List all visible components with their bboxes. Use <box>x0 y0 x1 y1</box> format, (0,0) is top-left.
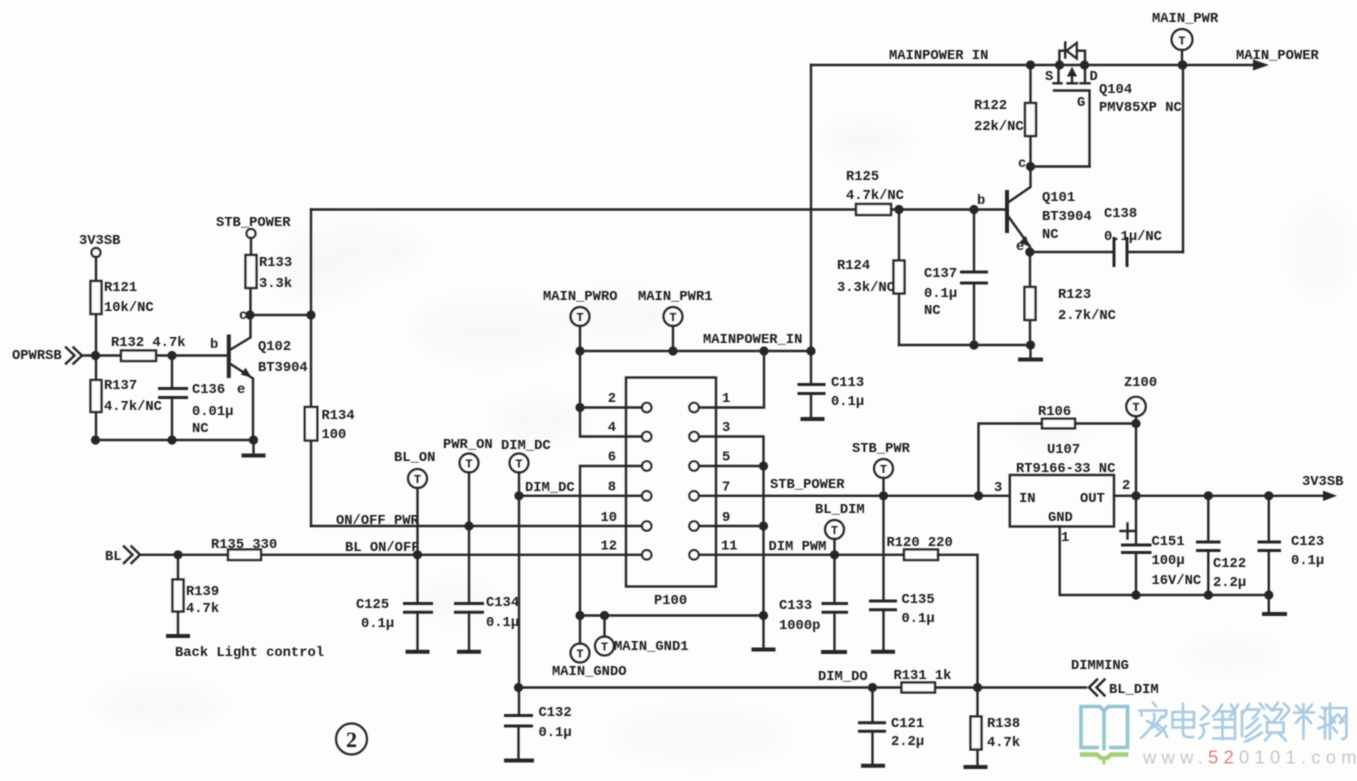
svg-text:e: e <box>1016 240 1024 255</box>
svg-text:2.7k/NC: 2.7k/NC <box>1058 308 1116 324</box>
svg-text:BL: BL <box>105 550 122 565</box>
svg-text:BL_ON: BL_ON <box>394 451 435 466</box>
svg-text:T: T <box>831 524 838 538</box>
svg-text:2.2μ: 2.2μ <box>891 735 924 750</box>
svg-text:G: G <box>1077 96 1085 111</box>
svg-text:3: 3 <box>722 421 730 436</box>
svg-text:2: 2 <box>608 392 616 407</box>
svg-text:P100: P100 <box>654 594 687 609</box>
svg-text:MAIN_PWRO: MAIN_PWRO <box>543 290 618 305</box>
svg-text:T: T <box>576 311 583 325</box>
svg-text:BL_DIM: BL_DIM <box>1109 683 1159 698</box>
svg-text:C136: C136 <box>192 383 225 398</box>
svg-text:R138: R138 <box>987 717 1020 732</box>
svg-text:S: S <box>1045 70 1053 85</box>
svg-text:R120 220: R120 220 <box>887 536 953 551</box>
svg-text:MAIN_GNDO: MAIN_GNDO <box>552 665 627 680</box>
svg-text:MAIN_GND1: MAIN_GND1 <box>614 640 689 655</box>
svg-text:OUT: OUT <box>1080 492 1105 507</box>
svg-text:DIM_DO: DIM_DO <box>818 670 868 685</box>
svg-text:R132 4.7k: R132 4.7k <box>111 335 186 351</box>
svg-text:DIM_DC: DIM_DC <box>501 439 551 454</box>
svg-text:GND: GND <box>1048 511 1073 526</box>
svg-text:12: 12 <box>600 540 617 555</box>
svg-text:3V3SB: 3V3SB <box>1302 475 1343 490</box>
svg-text:C133: C133 <box>779 599 812 614</box>
svg-text:C135: C135 <box>902 593 935 608</box>
svg-text:3.3k/NC: 3.3k/NC <box>837 280 895 296</box>
svg-text:R139: R139 <box>186 585 219 600</box>
svg-text:b: b <box>977 193 985 209</box>
svg-text:BL ON/OFF: BL ON/OFF <box>345 540 420 556</box>
svg-text:T: T <box>669 311 676 325</box>
svg-text:0.1μ: 0.1μ <box>1291 554 1324 569</box>
svg-text:R131 1k: R131 1k <box>894 668 952 684</box>
svg-text:C122: C122 <box>1213 557 1246 572</box>
svg-text:0.1μ: 0.1μ <box>486 616 519 631</box>
svg-text:4: 4 <box>608 421 616 436</box>
svg-text:www.520101.com: www.520101.com <box>1142 747 1357 768</box>
svg-text:BT3904: BT3904 <box>1042 210 1092 225</box>
svg-text:1000p: 1000p <box>779 619 820 634</box>
svg-text:1: 1 <box>722 392 730 407</box>
svg-text:DIM PWM: DIM PWM <box>769 540 827 555</box>
svg-text:R133: R133 <box>259 256 292 271</box>
svg-text:16V/NC: 16V/NC <box>1152 573 1202 589</box>
svg-text:C123: C123 <box>1291 535 1324 550</box>
svg-text:0.1μ/NC: 0.1μ/NC <box>1104 229 1162 245</box>
svg-text:MAINPOWER IN: MAINPOWER IN <box>889 49 988 64</box>
svg-text:T: T <box>1132 401 1139 415</box>
svg-text:T: T <box>414 473 421 487</box>
svg-text:0.1μ: 0.1μ <box>924 287 957 302</box>
svg-text:ON/OFF PWR: ON/OFF PWR <box>336 513 420 529</box>
svg-text:BT3904: BT3904 <box>258 361 308 376</box>
svg-text:T: T <box>576 648 583 662</box>
svg-text:MAIN_POWER: MAIN_POWER <box>1236 49 1320 64</box>
svg-text:4.7k/NC: 4.7k/NC <box>846 188 904 204</box>
svg-text:PWR_ON: PWR_ON <box>443 438 493 453</box>
svg-text:10k/NC: 10k/NC <box>104 300 154 316</box>
svg-text:T: T <box>515 458 522 472</box>
svg-text:NC: NC <box>1042 228 1059 243</box>
svg-text:RT9166-33 NC: RT9166-33 NC <box>1016 462 1115 477</box>
svg-text:0.01μ: 0.01μ <box>192 405 233 420</box>
svg-text:0.1μ: 0.1μ <box>831 395 864 410</box>
svg-text:4.7k: 4.7k <box>987 735 1020 751</box>
svg-text:STB_PWR: STB_PWR <box>852 442 911 457</box>
svg-text:MAIN_PWR: MAIN_PWR <box>1152 12 1219 27</box>
svg-text:R121: R121 <box>104 281 137 296</box>
svg-text:PMV85XP NC: PMV85XP NC <box>1099 101 1182 116</box>
svg-text:U107: U107 <box>1047 443 1080 458</box>
svg-text:0.1μ: 0.1μ <box>902 612 935 627</box>
svg-text:Q102: Q102 <box>258 340 291 355</box>
svg-text:C121: C121 <box>891 717 924 732</box>
svg-text:c: c <box>1018 157 1026 172</box>
svg-text:Back Light control: Back Light control <box>175 645 324 661</box>
svg-text:C138: C138 <box>1104 207 1137 222</box>
svg-text:6: 6 <box>608 451 616 466</box>
svg-text:IN: IN <box>1019 492 1036 507</box>
svg-text:R135 330: R135 330 <box>211 538 277 553</box>
svg-text:R134: R134 <box>322 409 355 424</box>
svg-text:2: 2 <box>346 727 357 752</box>
svg-text:8: 8 <box>608 481 616 496</box>
svg-text:R124: R124 <box>837 259 870 274</box>
svg-text:11: 11 <box>721 540 738 555</box>
svg-text:Q104: Q104 <box>1099 83 1132 98</box>
svg-text:NC: NC <box>924 304 941 319</box>
svg-text:R122: R122 <box>974 99 1007 114</box>
svg-text:C125: C125 <box>356 598 389 613</box>
svg-text:C134: C134 <box>486 596 519 611</box>
svg-text:22k/NC: 22k/NC <box>974 119 1024 135</box>
svg-text:OPWRSB: OPWRSB <box>12 349 62 364</box>
svg-text:0.1μ: 0.1μ <box>361 617 394 632</box>
svg-text:T: T <box>880 463 887 477</box>
svg-text:C132: C132 <box>539 706 572 721</box>
svg-text:2: 2 <box>1122 479 1130 494</box>
svg-text:9: 9 <box>722 511 730 526</box>
svg-text:T: T <box>465 458 472 472</box>
svg-text:T: T <box>1178 35 1185 49</box>
svg-text:D: D <box>1090 70 1098 85</box>
svg-text:T: T <box>601 641 608 655</box>
svg-text:3V3SB: 3V3SB <box>79 234 120 249</box>
svg-text:e: e <box>237 383 245 398</box>
svg-text:4.7k/NC: 4.7k/NC <box>104 399 162 415</box>
svg-text:NC: NC <box>192 422 209 437</box>
svg-text:3: 3 <box>994 481 1002 496</box>
svg-text:5: 5 <box>722 451 730 466</box>
svg-text:3.3k: 3.3k <box>259 276 292 292</box>
svg-text:STB_POWER: STB_POWER <box>770 478 845 493</box>
svg-text:DIM_DC: DIM_DC <box>525 481 575 496</box>
svg-text:10: 10 <box>600 511 617 526</box>
svg-text:R123: R123 <box>1058 288 1091 303</box>
svg-text:R106: R106 <box>1038 405 1071 420</box>
svg-text:MAIN_PWR1: MAIN_PWR1 <box>638 290 713 305</box>
svg-text:DIMMING: DIMMING <box>1071 659 1129 674</box>
svg-text:7: 7 <box>722 481 730 496</box>
svg-text:Q101: Q101 <box>1042 191 1075 206</box>
svg-text:MAINPOWER_IN: MAINPOWER_IN <box>703 333 802 348</box>
svg-text:100: 100 <box>322 428 347 443</box>
svg-text:4.7k: 4.7k <box>186 601 219 617</box>
svg-text:2.2μ: 2.2μ <box>1213 576 1246 591</box>
svg-text:C113: C113 <box>831 376 864 391</box>
svg-text:1: 1 <box>1061 531 1069 546</box>
svg-text:C137: C137 <box>924 267 957 282</box>
svg-text:R125: R125 <box>846 170 879 185</box>
svg-text:0.1μ: 0.1μ <box>539 726 572 741</box>
svg-text:C151: C151 <box>1152 535 1185 550</box>
svg-text:b: b <box>210 337 218 353</box>
svg-text:100μ: 100μ <box>1152 554 1185 569</box>
svg-text:R137: R137 <box>104 379 137 394</box>
svg-text:BL_DIM: BL_DIM <box>815 503 865 518</box>
svg-text:Z100: Z100 <box>1124 376 1157 391</box>
